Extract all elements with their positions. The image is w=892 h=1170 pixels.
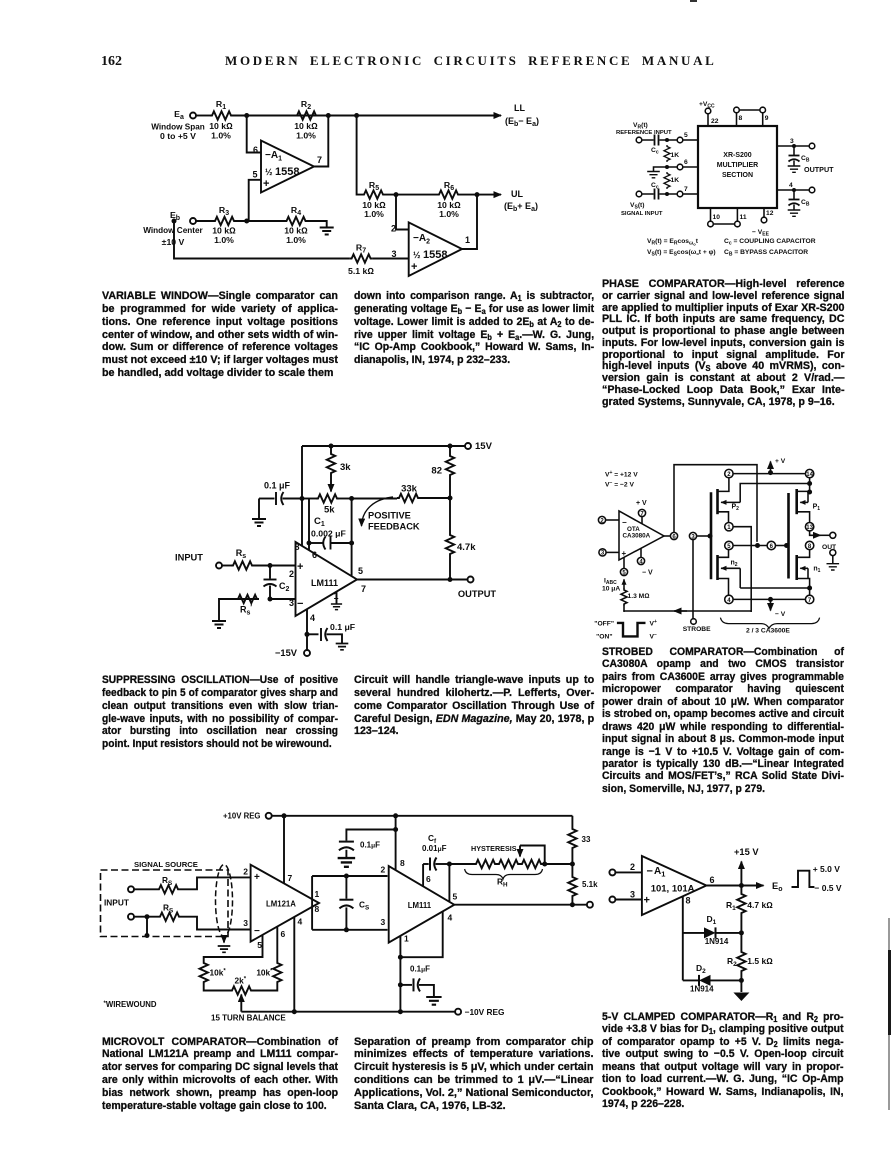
svg-text:−15V: −15V [275,648,298,658]
svg-text:101, 101A: 101, 101A [651,884,695,895]
svg-text:1: 1 [465,235,470,245]
svg-text:XR-S200: XR-S200 [723,152,752,159]
svg-text:1.5 kΩ: 1.5 kΩ [747,956,773,966]
svg-text:4: 4 [789,182,793,189]
svg-text:33: 33 [582,835,591,844]
svg-text:+ V: + V [636,500,647,507]
svg-text:1: 1 [315,889,320,899]
svg-text:OUT: OUT [822,544,837,551]
svg-text:−A2: −A2 [413,233,430,246]
svg-text:2: 2 [381,865,386,875]
svg-text:10 kΩ: 10 kΩ [212,226,236,236]
svg-text:7: 7 [684,186,688,193]
svg-text:P2: P2 [732,504,740,513]
svg-text:(Eb− Ea): (Eb− Ea) [505,116,539,128]
svg-text:4.7k: 4.7k [457,542,476,553]
svg-text:−A1: −A1 [265,150,282,163]
svg-text:6: 6 [710,875,715,885]
svg-text:6: 6 [426,874,431,884]
svg-text:7: 7 [317,155,322,165]
svg-text:6: 6 [684,159,688,166]
svg-text:RS: RS [163,903,173,915]
svg-text:UL: UL [511,189,523,199]
svg-text:+ V: + V [775,458,786,465]
svg-text:CS: CS [359,900,369,912]
svg-text:CB: CB [801,199,810,208]
svg-text:− VEE: − VEE [752,229,770,238]
svg-text:SECTION: SECTION [722,172,753,179]
svg-text:5: 5 [453,892,458,902]
svg-text:C2: C2 [279,581,290,593]
svg-text:FEEDBACK: FEEDBACK [368,522,420,532]
svg-text:Cc: Cc [651,182,659,191]
svg-text:R1: R1 [216,99,226,111]
svg-text:n2: n2 [731,560,738,569]
svg-text:0.01μF: 0.01μF [422,844,447,853]
svg-text:10: 10 [713,214,721,221]
svg-text:4: 4 [448,913,453,923]
svg-text:VS(t): VS(t) [630,202,645,211]
svg-text:7: 7 [361,584,366,594]
svg-text:Eb: Eb [170,210,180,222]
svg-text:10k*: 10k* [256,968,273,978]
svg-text:OUTPUT: OUTPUT [458,589,497,599]
svg-text:3: 3 [790,138,794,145]
svg-text:1.0%: 1.0% [439,209,459,219]
svg-text:±10 V: ±10 V [162,237,185,247]
svg-text:HYSTERESIS: HYSTERESIS [471,844,517,853]
svg-text:V−: V− [650,632,657,641]
svg-text:CB = BYPASS CAPACITOR: CB = BYPASS CAPACITOR [724,249,808,258]
svg-text:10 kΩ: 10 kΩ [284,226,308,236]
svg-text:14: 14 [806,472,813,478]
svg-text:5: 5 [358,566,363,576]
svg-text:8: 8 [315,904,320,914]
svg-text:6: 6 [253,145,258,155]
svg-text:4: 4 [310,613,315,623]
svg-text:POSITIVE: POSITIVE [368,511,411,521]
svg-text:− 0.5 V: − 0.5 V [814,883,842,893]
svg-text:2k*: 2k* [235,976,247,986]
svg-text:A1: A1 [654,866,665,879]
svg-text:+ 5.0 V: + 5.0 V [813,864,841,874]
svg-text:4.7 kΩ: 4.7 kΩ [747,900,773,910]
svg-text:LM121A: LM121A [266,900,296,909]
svg-text:Eo: Eo [772,881,782,893]
svg-text:5: 5 [257,940,262,950]
svg-text:C1: C1 [314,516,325,528]
svg-text:3: 3 [630,890,635,900]
svg-text:−: − [254,926,260,937]
svg-text:0.1 μF: 0.1 μF [330,622,355,632]
svg-text:V+ = +12 V: V+ = +12 V [605,470,638,479]
svg-text:12: 12 [766,210,774,217]
svg-text:VS(t) = EScos(ωot + φ): VS(t) = EScos(ωot + φ) [647,249,716,258]
svg-text:1N914: 1N914 [705,937,729,946]
svg-text:RS: RS [162,875,172,887]
svg-text:INPUT: INPUT [104,898,129,908]
svg-text:2: 2 [243,867,248,877]
svg-text:LL: LL [514,103,525,113]
svg-text:5.1k: 5.1k [582,880,598,889]
svg-text:*WIREWOUND: *WIREWOUND [104,1000,157,1009]
svg-text:+10V REG: +10V REG [223,812,261,821]
svg-text:LM111: LM111 [311,578,338,588]
svg-text:CB: CB [801,155,810,164]
svg-text:R3: R3 [219,205,229,217]
svg-text:n1: n1 [813,566,820,575]
svg-text:SIGNAL INPUT: SIGNAL INPUT [621,211,663,217]
svg-text:−10V REG: −10V REG [465,1007,505,1017]
svg-text:1.0%: 1.0% [214,235,234,245]
svg-text:1: 1 [333,591,338,601]
svg-text:8: 8 [739,115,743,122]
svg-text:33k: 33k [401,484,418,495]
svg-text:3: 3 [243,918,248,928]
svg-text:+: + [297,561,303,573]
svg-text:5.1 kΩ: 5.1 kΩ [348,266,374,276]
svg-text:R1: R1 [726,900,736,912]
svg-text:3k: 3k [340,462,351,473]
svg-text:3: 3 [289,598,294,608]
svg-text:P1: P1 [813,504,821,513]
svg-text:0.1μF: 0.1μF [360,841,380,850]
svg-text:15V: 15V [475,441,493,452]
svg-text:1.0%: 1.0% [364,209,384,219]
svg-text:"OFF": "OFF" [594,621,614,628]
svg-text:−: − [622,518,627,527]
svg-text:7: 7 [288,873,293,883]
svg-text:11: 11 [740,214,747,221]
svg-text:INPUT: INPUT [175,553,203,563]
svg-text:5k: 5k [324,505,335,516]
svg-text:−: − [297,598,303,610]
svg-text:Cc: Cc [651,147,659,156]
svg-text:10 μA: 10 μA [602,586,620,593]
svg-text:+: + [263,178,269,190]
svg-text:D2: D2 [696,963,706,975]
svg-text:2: 2 [289,569,294,579]
svg-text:½ 1558: ½ 1558 [265,166,300,178]
svg-text:Window Center: Window Center [143,226,203,235]
svg-text:0.1μF: 0.1μF [410,965,430,974]
svg-text:4: 4 [298,917,303,927]
svg-text:+VCC: +VCC [699,101,715,110]
svg-text:½ 1558: ½ 1558 [413,249,448,261]
svg-text:(Eb+ Ea): (Eb+ Ea) [504,201,538,213]
svg-text:1K: 1K [671,152,680,159]
svg-text:+: + [411,261,417,273]
svg-text:Ea: Ea [174,109,184,121]
svg-text:1.3 MΩ: 1.3 MΩ [628,593,650,600]
svg-text:V+: V+ [650,619,657,628]
svg-text:1.0%: 1.0% [296,131,316,141]
svg-text:6: 6 [281,929,286,939]
svg-text:5: 5 [684,132,688,139]
svg-text:1.0%: 1.0% [211,131,231,141]
svg-text:15 TURN BALANCE: 15 TURN BALANCE [211,1014,286,1023]
svg-text:82: 82 [431,466,442,477]
svg-text:Rs: Rs [236,548,247,560]
svg-text:3: 3 [381,917,386,927]
svg-text:D1: D1 [707,914,717,926]
svg-text:+15 V: +15 V [734,847,759,857]
svg-text:"ON": "ON" [596,634,612,641]
svg-text:REFERENCE INPUT: REFERENCE INPUT [616,130,672,136]
svg-text:1: 1 [404,934,409,944]
svg-text:RH: RH [497,877,508,889]
svg-text:1.0%: 1.0% [286,235,306,245]
svg-text:−: − [647,866,653,878]
svg-text:8: 8 [294,542,299,552]
svg-text:5: 5 [252,170,257,180]
svg-text:6: 6 [312,550,317,560]
svg-text:2: 2 [630,862,635,872]
svg-text:8: 8 [686,896,691,906]
svg-text:SIGNAL SOURCE: SIGNAL SOURCE [134,860,198,869]
svg-text:8: 8 [400,858,405,868]
svg-text:+: + [644,895,650,907]
svg-text:10 kΩ: 10 kΩ [209,121,233,131]
svg-text:MULTIPLIER: MULTIPLIER [717,162,758,169]
svg-text:VR(t) = ERcosωot: VR(t) = ERcosωot [647,238,699,247]
svg-text:R2: R2 [301,99,311,111]
svg-text:OUTPUT: OUTPUT [804,165,834,174]
svg-text:0.1 μF: 0.1 μF [264,481,291,491]
svg-text:0.002 μF: 0.002 μF [311,529,346,539]
svg-text:2 / 3 CA3600E: 2 / 3 CA3600E [746,628,790,635]
svg-text:2: 2 [391,224,396,234]
svg-text:13: 13 [806,525,813,531]
svg-text:22: 22 [711,118,719,125]
svg-text:10 kΩ: 10 kΩ [294,121,318,131]
svg-text:STROBE: STROBE [683,626,711,633]
svg-text:9: 9 [765,115,769,122]
svg-text:3: 3 [391,249,396,259]
svg-text:CA3080A: CA3080A [623,533,651,540]
svg-text:Rs′: Rs′ [240,605,252,617]
svg-text:10k*: 10k* [210,968,227,978]
svg-text:V− = −2 V: V− = −2 V [605,480,634,489]
svg-text:+: + [622,549,627,558]
svg-text:+: + [254,872,260,883]
svg-text:Cc = COUPLING CAPACITOR: Cc = COUPLING CAPACITOR [724,238,816,247]
svg-text:1N914: 1N914 [690,985,714,994]
svg-text:− V: − V [642,570,653,577]
svg-text:LM111: LM111 [408,901,432,910]
svg-text:− V: − V [775,611,786,618]
svg-text:0 to +5 V: 0 to +5 V [160,131,196,141]
svg-text:1K: 1K [671,177,680,184]
